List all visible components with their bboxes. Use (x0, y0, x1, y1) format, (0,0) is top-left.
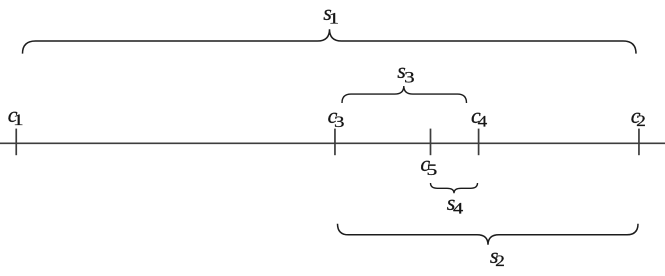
label c5 (420, 151, 437, 179)
svg-text:2: 2 (636, 113, 646, 130)
label c3 (328, 103, 345, 131)
svg-text:1: 1 (329, 11, 340, 28)
brace s2 (under-brace spanning c3..c2) (338, 224, 639, 245)
main number line (0, 142, 665, 144)
tick c3 (334, 129, 336, 156)
tick c2 (638, 129, 640, 156)
svg-text:2: 2 (495, 253, 505, 270)
svg-text:5: 5 (426, 162, 437, 179)
label s2 (490, 243, 505, 270)
brace s1 (over-brace spanning c1..c2) (23, 29, 637, 53)
label s1 (323, 0, 339, 28)
svg-text:1: 1 (13, 112, 24, 129)
brace s3 (over-brace spanning c3..c4) (342, 86, 467, 103)
label c1 (8, 102, 24, 129)
label s4 (447, 190, 464, 218)
tick c5 (430, 129, 432, 156)
label c4 (471, 103, 487, 131)
svg-text:4: 4 (453, 200, 463, 217)
label s3 (397, 58, 414, 87)
svg-text:3: 3 (404, 69, 415, 86)
svg-text:3: 3 (334, 114, 345, 131)
brace s4 (under-brace spanning c5..c4) (431, 183, 478, 193)
svg-text:4: 4 (478, 114, 488, 131)
tick c4 (478, 129, 480, 156)
tick c1 (15, 129, 17, 156)
label c2 (631, 103, 646, 130)
